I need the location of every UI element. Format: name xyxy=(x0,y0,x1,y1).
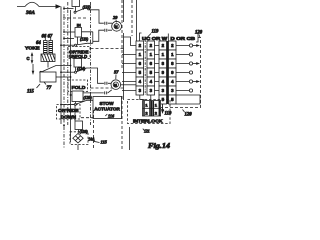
label FOLD xyxy=(72,85,87,91)
label (124) xyxy=(77,67,86,71)
bus wire vertical dash-dot xyxy=(63,7,65,149)
label 77 xyxy=(44,82,52,91)
box beside terminal 5 xyxy=(176,95,200,104)
svg-text:(125): (125) xyxy=(84,96,93,100)
svg-text:119: 119 xyxy=(152,30,160,35)
wire down switch to actuator xyxy=(87,99,93,101)
svg-text:YOKE: YOKE xyxy=(25,46,40,51)
circuit breaker 30A xyxy=(25,2,39,6)
label 10A xyxy=(88,137,95,141)
interlock connector 2 xyxy=(152,101,161,116)
wire coil to fold switch xyxy=(75,67,77,71)
dashed panel line horizontal xyxy=(63,17,88,19)
label 119 bottom xyxy=(162,109,172,117)
wire bus to top box xyxy=(63,8,73,10)
relay box down coil xyxy=(75,121,83,130)
connector body 64 xyxy=(41,54,55,62)
connector pair motor57 upper xyxy=(105,82,107,85)
wire stubs into column A xyxy=(122,37,136,91)
wire fold coil to motor57 lower xyxy=(83,90,112,93)
label OR'RIDE down xyxy=(58,108,79,113)
bus wire dash-dot right of switches xyxy=(90,2,92,125)
svg-text:FOLD: FOLD xyxy=(72,85,87,91)
header text UC OR W xyxy=(142,36,167,41)
dashed box override unfold xyxy=(68,47,90,59)
wire top box to switch xyxy=(75,7,77,12)
relay box top xyxy=(72,0,80,7)
interlock pin numbers 1 xyxy=(145,103,148,116)
label 119 top xyxy=(148,30,160,38)
interlock connector 1 xyxy=(143,101,152,116)
label OR'RIDE xyxy=(69,49,89,54)
label YOKE xyxy=(25,46,40,51)
relay box 77 xyxy=(40,72,56,82)
arrow row 8 xyxy=(193,62,200,65)
open terminal circles xyxy=(189,44,192,92)
connector 120 column C xyxy=(159,41,167,104)
dashed wire fold row xyxy=(91,87,124,89)
wires to open terminals xyxy=(176,46,189,91)
switch 122 xyxy=(74,8,87,14)
wire bus to unfold switch xyxy=(60,44,74,46)
connector pair motor57 lower xyxy=(105,91,107,94)
svg-text:STOW: STOW xyxy=(100,101,115,106)
dashed wire down row xyxy=(81,117,93,119)
wire long right vertical xyxy=(123,0,125,100)
junction dot bus bottom xyxy=(63,125,65,127)
wire colB3 to interlock xyxy=(150,95,152,101)
svg-text:115: 115 xyxy=(101,140,108,145)
arrow row 2 xyxy=(193,44,200,47)
bus wire vertical solid inner xyxy=(70,10,72,142)
dashed wire unfold row xyxy=(91,48,124,50)
svg-text:57: 57 xyxy=(114,70,119,75)
connector 119 column A xyxy=(136,41,144,95)
label C xyxy=(27,56,30,61)
label STOW xyxy=(100,101,115,106)
svg-text:INTERLOCK: INTERLOCK xyxy=(133,118,163,123)
svg-text:29: 29 xyxy=(112,15,118,20)
wire stubs B to C xyxy=(155,46,160,91)
wire bus to IN box xyxy=(63,31,75,33)
wire IN box to switch xyxy=(76,37,78,44)
svg-text:C: C xyxy=(27,56,30,61)
label UNFOLD xyxy=(69,54,88,59)
dashed bottom panel vertical xyxy=(93,110,95,150)
label 121 xyxy=(143,129,150,134)
label DOWN xyxy=(61,114,77,120)
label 64 xyxy=(36,41,41,46)
svg-text:Fig.14: Fig.14 xyxy=(148,142,171,150)
wire bus to fold switch xyxy=(60,71,74,73)
svg-text:10A: 10A xyxy=(88,137,95,141)
dashed box override down xyxy=(57,105,81,120)
labels 66 67 xyxy=(42,35,53,40)
label 57 xyxy=(114,70,119,80)
arrowhead into bus xyxy=(56,4,62,8)
terminal numbers column A xyxy=(139,43,142,93)
ground arrow under switch xyxy=(32,64,35,75)
connector 120 column D xyxy=(169,41,177,104)
connector pin 66 xyxy=(44,38,48,55)
wire below interlock xyxy=(129,127,131,150)
label 29 xyxy=(112,15,118,22)
svg-text:119: 119 xyxy=(165,112,173,117)
label (123) xyxy=(80,38,89,42)
wire colA3 to interlock xyxy=(140,95,144,101)
wire supply feed xyxy=(17,6,56,8)
wire bus stub 123 xyxy=(63,38,74,40)
dash-dot mating line 119 xyxy=(144,40,146,96)
bus wire dash-dot inner left boundary xyxy=(67,2,69,125)
label 115 left xyxy=(27,84,40,95)
wire switch122 to motor29 upper xyxy=(87,8,113,24)
switch down xyxy=(74,100,87,105)
relay box fold coil xyxy=(72,91,83,102)
interlock dashed box xyxy=(128,100,171,124)
relay box unfold coil xyxy=(74,59,82,68)
motor M 57 xyxy=(111,80,121,90)
ground arrow right xyxy=(161,104,164,114)
svg-text:ACTUATOR: ACTUATOR xyxy=(94,106,120,111)
bus wire vertical solid left xyxy=(60,7,62,125)
motor M 29 xyxy=(112,21,122,31)
label (125) xyxy=(84,96,93,100)
wire below diamond xyxy=(77,145,79,151)
wire down to relay box xyxy=(74,105,76,121)
svg-text:115: 115 xyxy=(27,90,35,95)
figure caption Fig.14 xyxy=(148,142,171,150)
switch 77 blade xyxy=(40,65,72,74)
svg-text:116: 116 xyxy=(108,114,115,119)
wire bus to fold coil xyxy=(70,94,72,96)
label (122) xyxy=(83,6,92,10)
wire from top into terminal 2 xyxy=(136,0,138,41)
wire unfold switch to motor29 lower xyxy=(93,30,112,41)
svg-text:77: 77 xyxy=(47,86,52,91)
arrow C xyxy=(31,52,34,64)
label 120 top xyxy=(195,31,203,38)
terminal numbers column D xyxy=(171,43,174,102)
harness dashed box right xyxy=(158,38,201,108)
mating line 120 xyxy=(167,41,169,104)
dashed box fold xyxy=(68,80,88,92)
interlock pin numbers 2 xyxy=(155,103,158,116)
wire fold coil to switch down xyxy=(75,102,77,104)
svg-text:UC OR W: UC OR W xyxy=(142,36,167,41)
svg-text:M: M xyxy=(115,25,118,29)
stow actuator box xyxy=(93,97,122,119)
dashed box around diamond xyxy=(70,132,88,145)
label 120 bottom xyxy=(183,110,193,118)
switch fold xyxy=(75,68,88,73)
label 115 right xyxy=(94,140,108,145)
relay box IN xyxy=(75,28,82,38)
header text D OR CB xyxy=(171,36,196,41)
svg-text:30A: 30A xyxy=(25,10,35,16)
svg-text:OR’RIDE: OR’RIDE xyxy=(58,108,79,113)
dashed connector edge top xyxy=(131,0,133,36)
svg-text:120: 120 xyxy=(185,113,193,118)
wire fold switch to motor57 upper xyxy=(87,68,111,83)
value label 30A xyxy=(25,10,35,16)
label (126) xyxy=(80,130,89,134)
fuse diamond 10A xyxy=(73,134,83,143)
svg-text:121: 121 xyxy=(144,130,150,134)
terminal numbers column B xyxy=(150,43,153,93)
wire bus to down switch xyxy=(60,104,74,106)
label INTERLOCK xyxy=(133,118,163,123)
dashed panel right edge xyxy=(121,0,123,150)
label 116 xyxy=(105,114,115,119)
connector pair motor29 upper xyxy=(105,22,107,25)
arrow row 4 xyxy=(193,80,200,83)
wire box to diamond xyxy=(77,130,79,134)
svg-text:DOWN: DOWN xyxy=(61,114,77,120)
wire yoke stem xyxy=(47,62,49,68)
svg-text:M: M xyxy=(114,83,117,87)
wire motor57 to connector row4 xyxy=(121,84,136,86)
switch unfold xyxy=(75,43,89,46)
header bracket xyxy=(140,33,199,42)
svg-text:66 67: 66 67 xyxy=(42,35,53,40)
connector 119 column B xyxy=(147,41,155,95)
svg-text:IN: IN xyxy=(77,23,81,28)
wire IN box output xyxy=(82,32,93,44)
label ACTUATOR xyxy=(94,106,120,111)
terminal numbers column C xyxy=(162,43,165,102)
connector pin 67 xyxy=(49,38,53,55)
connector pair motor29 lower xyxy=(105,29,107,32)
wire box77 to bus xyxy=(56,76,71,78)
svg-text:(123): (123) xyxy=(80,38,89,42)
label IN xyxy=(77,23,81,28)
svg-text:D OR CB: D OR CB xyxy=(171,36,196,41)
